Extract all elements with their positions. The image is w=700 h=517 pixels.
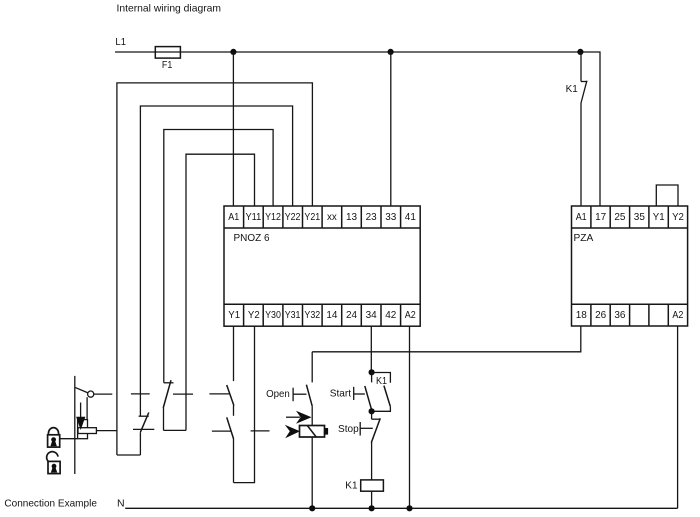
svg-text:A1: A1 (228, 211, 239, 223)
svg-text:PZA: PZA (574, 232, 594, 244)
pushbutton Start (NO contact) (365, 372, 372, 410)
svg-text:xx: xx (327, 211, 338, 223)
svg-text:Y30: Y30 (265, 309, 281, 321)
wire lamp branch lower (311, 437, 313, 508)
wire coil to N (371, 491, 373, 508)
relay coil K1 (361, 480, 384, 491)
roller (88, 391, 94, 397)
wire L1 to PNOZ pin 33 (390, 52, 392, 206)
roller lever (75, 387, 88, 393)
svg-text:Y21: Y21 (304, 211, 320, 223)
svg-text:42: 42 (385, 309, 396, 321)
svg-text:36: 36 (614, 309, 625, 321)
PZA bottom terminal dividers (591, 304, 668, 326)
actuation arrow lower (to release coil) (285, 425, 300, 438)
wire PNOZ 34 down (370, 326, 372, 372)
svg-text:Open: Open (266, 388, 290, 400)
relay block PZA (572, 206, 688, 326)
svg-text:Connection Example: Connection Example (4, 497, 97, 509)
svg-text:Internal wiring diagram: Internal wiring diagram (117, 3, 222, 15)
wire loop Y12 (164, 130, 273, 383)
svg-text:18: 18 (576, 309, 587, 321)
svg-text:34: 34 (366, 309, 377, 321)
wire jumper PZA Y1-Y2 (656, 185, 678, 206)
wire loop Y21 (outer) (117, 83, 313, 455)
release solenoid box (gate) (78, 428, 96, 434)
svg-text:K1: K1 (376, 375, 387, 387)
svg-text:23: 23 (366, 211, 377, 223)
wire L1 bus (115, 52, 600, 206)
gate switch contact channel B (between Y12 and Y11 wires) (163, 380, 186, 430)
junction on N at PNOZ A2 (406, 505, 412, 511)
padlock link line (60, 438, 78, 440)
mechanical link line (solenoid row) (96, 429, 269, 431)
Start button plunger (354, 387, 365, 400)
safety bolt actuator bar (74, 376, 76, 474)
Stop button plunger (360, 422, 373, 436)
svg-text:41: 41 (405, 211, 416, 223)
wire PZA A2 to N (677, 326, 679, 508)
contact K1 (auxiliary, parallel to Start) (372, 373, 391, 412)
actuation arrow upper (to wire) (286, 411, 312, 424)
padlock open (47, 452, 60, 474)
svg-text:Y1: Y1 (228, 309, 240, 321)
contact K1 (NO, to PZA A1) (581, 52, 587, 206)
svg-text:N: N (117, 497, 125, 509)
pushbutton Open (NO contact) (306, 385, 312, 426)
wire PNOZ A2 to N (409, 326, 411, 508)
wire loop Y22 (140, 106, 292, 416)
svg-text:25: 25 (614, 211, 625, 223)
svg-text:Start: Start (330, 388, 351, 400)
svg-text:26: 26 (595, 309, 606, 321)
PNOZ 6 bottom terminal dividers (244, 304, 401, 326)
svg-text:33: 33 (385, 211, 396, 223)
mechanical link from roller (94, 393, 113, 395)
svg-text:Y22: Y22 (285, 211, 301, 223)
svg-text:Y32: Y32 (304, 309, 320, 321)
wire lamp branch upper (311, 352, 313, 383)
svg-text:L1: L1 (115, 36, 126, 48)
svg-text:PNOZ 6: PNOZ 6 (234, 232, 270, 244)
svg-text:13: 13 (346, 211, 357, 223)
PNOZ 6 top terminal dividers (244, 206, 401, 228)
wire L1 to PNOZ pin A1 (232, 52, 234, 206)
release solenoid / lamp box (300, 426, 329, 438)
Open button plunger (293, 388, 306, 402)
svg-text:14: 14 (326, 309, 337, 321)
svg-text:A2: A2 (405, 309, 416, 321)
svg-text:A2: A2 (672, 309, 683, 321)
wire PNOZ Y1 down (233, 326, 235, 381)
svg-text:24: 24 (346, 309, 357, 321)
gate switch contact (Y1 chain, lower NO) (227, 417, 234, 482)
junction on L1 at A1 drop (230, 49, 236, 55)
wire N bus (125, 507, 677, 509)
junction node start-top (369, 369, 375, 375)
svg-text:Y2: Y2 (248, 309, 260, 321)
junction on L1 at 33 drop (388, 49, 394, 55)
junction on N at K1 coil (369, 505, 375, 511)
svg-text:17: 17 (595, 211, 606, 223)
wire Y1-Y2 feedback loop (234, 326, 255, 482)
svg-text:35: 35 (634, 211, 645, 223)
wire PZA 18 to lamp branch (312, 326, 581, 352)
svg-text:Stop: Stop (338, 423, 359, 435)
junction on N at lamp branch (309, 505, 315, 511)
bolt arrow (76, 403, 85, 431)
svg-text:K1: K1 (345, 480, 357, 492)
pushbutton Stop (NC contact) (371, 411, 380, 480)
svg-text:Y1: Y1 (653, 211, 665, 223)
svg-text:Y31: Y31 (285, 309, 301, 321)
svg-text:Y11: Y11 (246, 211, 262, 223)
svg-text:Y2: Y2 (672, 211, 684, 223)
gate switch contact channel A (between Y21 and Y22 wires) (117, 413, 149, 456)
relay block PNOZ 6 (224, 206, 420, 326)
wire loop Y11 (186, 154, 255, 430)
fuse F1 (155, 47, 180, 59)
PZA top terminal dividers (591, 206, 668, 228)
padlock closed (48, 428, 60, 447)
mechanical link line (roller row) (131, 393, 230, 395)
svg-text:A1: A1 (576, 211, 587, 223)
gate switch contact (Y1 chain, upper NO) (227, 385, 234, 416)
svg-text:Y12: Y12 (265, 211, 281, 223)
svg-text:F1: F1 (162, 59, 173, 71)
bolt housing (78, 420, 88, 439)
svg-text:K1: K1 (566, 83, 578, 95)
junction on L1 at K1 drop (577, 49, 583, 55)
junction node start-bottom (369, 408, 375, 414)
link roller to bolt housing (86, 397, 88, 419)
